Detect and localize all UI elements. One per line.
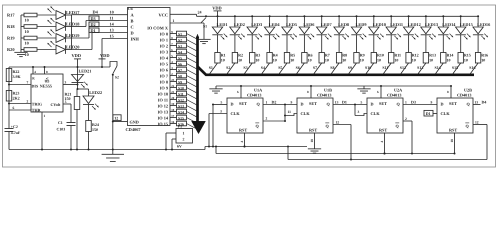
svg-text:11: 11 [288, 110, 292, 114]
svg-text:SET: SET [309, 101, 317, 106]
bus arrowhead [192, 121, 206, 133]
wire U1A D pin 5 [212, 100, 227, 105]
node [88, 149, 90, 151]
node S7 [313, 65, 317, 70]
wire U2A CLK pin 3 [355, 110, 367, 115]
resistor R8 [336, 53, 347, 64]
bus vertical [196, 34, 199, 122]
resistor R7 [319, 53, 330, 64]
svg-text:D: D [301, 102, 304, 107]
wire [212, 105, 214, 148]
flip-flop U1B CD4013 [297, 88, 333, 133]
svg-text:3.9K: 3.9K [13, 74, 22, 79]
pin IO 15 [158, 120, 177, 127]
svg-text:TRIG: TRIG [32, 102, 42, 107]
wire [303, 35, 305, 53]
wire [187, 82, 197, 87]
svg-text:IO 6: IO 6 [160, 68, 169, 73]
pin IO 10 [158, 90, 177, 97]
svg-text:IO 1: IO 1 [160, 38, 168, 43]
LED7 [317, 22, 333, 39]
pin IO 1 [160, 36, 177, 43]
wire [187, 124, 197, 129]
LED19 [48, 30, 81, 43]
wire U1B Q pin 13 net D1 [333, 99, 367, 105]
svg-text:LED19: LED19 [66, 33, 80, 38]
svg-text:IO 4: IO 4 [160, 56, 169, 61]
wire [187, 70, 197, 75]
svg-text:VCC: VCC [158, 12, 168, 17]
wire [187, 100, 197, 105]
node S7 [177, 67, 187, 72]
wire [296, 63, 304, 74]
pin GND [130, 119, 139, 124]
wire [269, 16, 271, 27]
wire [279, 63, 287, 74]
wire [477, 16, 479, 27]
wire led cathode rail [71, 15, 73, 50]
node [425, 15, 427, 17]
svg-text:S7: S7 [313, 65, 317, 70]
svg-text:LED6: LED6 [303, 22, 315, 27]
wire [314, 63, 322, 74]
timer U3 NE555 [31, 74, 63, 112]
node left rail [20, 15, 22, 50]
wire [373, 35, 375, 53]
svg-text:INH: INH [131, 37, 140, 42]
svg-text:15: 15 [110, 34, 114, 39]
svg-text:2: 2 [266, 117, 268, 121]
svg-text:P1: P1 [178, 125, 182, 129]
wire [187, 106, 197, 111]
svg-text:1: 1 [266, 100, 268, 104]
LED5 [282, 22, 297, 39]
svg-text:R20: R20 [7, 47, 15, 52]
svg-text:LED14: LED14 [442, 22, 456, 27]
wire [77, 88, 89, 90]
resistor R20 [7, 47, 37, 57]
node S10 [365, 65, 371, 70]
svg-text:150: 150 [92, 127, 98, 132]
svg-text:10: 10 [221, 57, 225, 62]
wire [373, 16, 375, 27]
svg-text:10: 10 [25, 52, 29, 57]
label D1 [89, 28, 114, 33]
node S13 [177, 103, 187, 108]
svg-text:IO 2: IO 2 [160, 44, 168, 49]
svg-text:5: 5 [361, 100, 363, 104]
wire feedback bottom [288, 159, 487, 161]
power VDD [212, 5, 222, 16]
pin IO 2 [160, 42, 177, 49]
wire [453, 63, 461, 74]
svg-text:22: 22 [171, 84, 175, 88]
svg-text:S4: S4 [261, 65, 265, 70]
LED22 [83, 89, 102, 110]
resistor R9 [354, 53, 365, 64]
ground [197, 37, 210, 44]
wire line B [216, 153, 455, 155]
node [321, 15, 323, 17]
bus elbow [198, 67, 475, 75]
node [477, 15, 479, 17]
svg-text:3: 3 [65, 81, 67, 85]
svg-text:S11: S11 [178, 92, 184, 96]
wire [477, 35, 479, 53]
svg-text:D2: D2 [91, 22, 96, 27]
LED8 [334, 22, 349, 39]
svg-text:D3: D3 [411, 99, 416, 104]
wire [366, 63, 374, 74]
resistor R23 [6, 91, 19, 102]
node S12 [177, 97, 187, 102]
label D4 [93, 10, 114, 15]
node [77, 66, 104, 68]
node S4 [177, 49, 187, 54]
resistor R14 [441, 53, 454, 64]
resistor R16 [475, 53, 488, 64]
border frame [3, 5, 496, 167]
wire SET pin 8 [307, 85, 312, 98]
svg-text:IO 15: IO 15 [158, 122, 168, 127]
svg-text:2: 2 [183, 138, 185, 142]
LED11 [386, 22, 403, 39]
power VDD [72, 53, 82, 89]
node S13 [417, 65, 423, 70]
wire CVolt pin 5 [63, 100, 71, 104]
node S9 [177, 79, 187, 84]
svg-text:SET: SET [239, 101, 247, 106]
svg-text:S2: S2 [226, 65, 230, 70]
wire [187, 76, 197, 81]
wire ground rail [9, 147, 205, 150]
pin IO 12 [158, 102, 177, 109]
svg-text:16: 16 [171, 120, 175, 124]
wire [187, 118, 197, 123]
svg-text:6V: 6V [177, 144, 182, 148]
resistor R18 [7, 24, 37, 34]
pin INH [131, 37, 140, 42]
svg-text:19: 19 [171, 102, 175, 106]
flip-flop U1A CD4013 [227, 88, 263, 133]
svg-text:1: 1 [183, 132, 185, 136]
wire line A [205, 146, 307, 148]
resistor R24 [86, 105, 99, 150]
wire GND pin 1 [42, 112, 46, 150]
flip-flop U2B CD4013 [437, 88, 473, 133]
svg-text:S1: S1 [178, 32, 182, 36]
wire [234, 16, 236, 27]
svg-text:2K2: 2K2 [13, 96, 20, 101]
node [41, 149, 43, 151]
svg-text:R19: R19 [7, 35, 15, 40]
wire SET pin 6 [237, 85, 242, 98]
resistor R3 [250, 53, 261, 64]
svg-text:13: 13 [475, 100, 479, 104]
svg-text:150: 150 [65, 96, 71, 101]
wire [442, 16, 444, 27]
svg-text:S7: S7 [178, 68, 182, 72]
wire [354, 105, 356, 116]
svg-text:11: 11 [110, 16, 114, 21]
wire [208, 114, 210, 148]
wire [187, 64, 197, 69]
svg-text:LED17: LED17 [66, 10, 80, 15]
wire [338, 16, 340, 27]
svg-text:LED2: LED2 [234, 22, 245, 27]
svg-text:IO 13: IO 13 [158, 110, 168, 115]
wire SET pin 6 [377, 85, 382, 98]
wire [217, 16, 219, 27]
node S12 [400, 65, 406, 70]
LED6 [299, 22, 315, 39]
wire U2A Q pin 1 net D3 [403, 99, 437, 104]
svg-text:RST: RST [449, 127, 457, 132]
wire [70, 126, 72, 150]
wire [112, 75, 114, 150]
svg-text:IO 8: IO 8 [160, 80, 168, 85]
svg-text:IO 7: IO 7 [160, 74, 169, 79]
svg-text:D1: D1 [91, 28, 96, 33]
svg-text:S3: S3 [178, 44, 182, 48]
pin IO 7 [160, 72, 177, 79]
wire [70, 104, 72, 123]
wire [460, 16, 462, 27]
resistor R10 [371, 53, 384, 64]
wire [187, 88, 197, 93]
svg-text:VDD: VDD [72, 53, 82, 58]
svg-text:10: 10 [290, 57, 294, 62]
pin D [131, 31, 134, 36]
mux U4 CD4067 [126, 6, 171, 132]
svg-text:LED11: LED11 [390, 22, 403, 27]
svg-text:20: 20 [171, 96, 175, 100]
resistor R12 [406, 53, 419, 64]
LED20 [48, 41, 81, 54]
wire SET pin 8 [447, 85, 452, 98]
svg-text:THR: THR [32, 107, 41, 112]
wire [251, 16, 253, 27]
LED14 [438, 22, 456, 39]
wire [390, 35, 392, 53]
resistor R1 [215, 53, 226, 64]
node S11 [382, 65, 388, 70]
wire VCC pin 24 [170, 9, 202, 16]
svg-text:LED21: LED21 [79, 69, 92, 74]
connector P1 [176, 125, 193, 149]
wire THR pin 6 [9, 106, 31, 110]
wire [203, 23, 205, 37]
svg-text:D2: D2 [272, 99, 277, 104]
svg-text:D: D [231, 102, 234, 107]
svg-text:10: 10 [238, 57, 242, 62]
LED2 [230, 22, 245, 39]
wire RST pin 10 [450, 133, 455, 155]
node [356, 15, 358, 17]
svg-text:Vcc: Vcc [45, 77, 49, 83]
wire feedback right [486, 125, 488, 160]
resistor R11 [389, 53, 402, 64]
node S14 [177, 109, 187, 114]
svg-text:S15: S15 [178, 116, 184, 120]
svg-text:LED15: LED15 [460, 22, 473, 27]
wire [303, 16, 305, 27]
wire [286, 16, 288, 27]
node S16 [469, 65, 475, 70]
ground [14, 50, 27, 57]
svg-text:13: 13 [110, 28, 114, 33]
svg-text:C103: C103 [57, 127, 66, 131]
node [234, 15, 236, 17]
pin IO 4 [160, 54, 177, 61]
wire U1A CLK pin 3 [209, 109, 227, 113]
LED21 [72, 69, 92, 88]
resistor R19 [7, 35, 37, 45]
svg-text:D4: D4 [93, 10, 99, 15]
node [112, 149, 114, 151]
node [286, 15, 288, 17]
svg-text:10: 10 [412, 57, 416, 62]
node S5 [278, 65, 282, 70]
svg-text:S13: S13 [178, 104, 184, 108]
svg-text:S8: S8 [330, 65, 334, 70]
svg-text:S2: S2 [178, 38, 182, 42]
svg-text:5: 5 [221, 100, 223, 104]
wire [425, 16, 427, 27]
wire net D3 [72, 21, 128, 27]
svg-text:4: 4 [380, 141, 384, 143]
svg-text:S10: S10 [178, 86, 184, 90]
svg-text:LED8: LED8 [338, 22, 349, 27]
label 12 [113, 115, 121, 121]
wire [331, 63, 339, 74]
pin VCC [158, 12, 168, 17]
svg-text:10: 10 [429, 57, 433, 62]
wire [442, 35, 444, 53]
svg-text:D1: D1 [342, 99, 347, 104]
svg-text:24: 24 [198, 9, 202, 14]
wire [411, 121, 413, 155]
wire [425, 35, 427, 53]
node [408, 15, 410, 17]
power VDD [99, 53, 110, 59]
svg-text:+C2: +C2 [11, 125, 18, 129]
svg-text:C1: C1 [58, 121, 63, 125]
LED17 [48, 7, 81, 20]
wire U2B Q pin 13 net D4 [473, 99, 486, 104]
svg-text:10: 10 [25, 40, 29, 45]
wire [284, 105, 286, 122]
svg-text:10: 10 [25, 29, 29, 34]
pin A [131, 13, 135, 18]
svg-text:IO 14: IO 14 [158, 116, 169, 121]
node S15 [452, 65, 458, 70]
LED9 [351, 22, 366, 39]
svg-text:17: 17 [171, 114, 175, 118]
svg-text:IO 12: IO 12 [158, 104, 168, 109]
node S16 [177, 121, 187, 126]
svg-text:3: 3 [220, 109, 222, 113]
ground [357, 86, 370, 93]
wire [269, 35, 271, 53]
pin IO 9 [160, 84, 177, 91]
svg-text:S2: S2 [115, 76, 119, 80]
svg-text:21: 21 [171, 90, 175, 94]
LED12 [403, 22, 420, 39]
svg-text:1: 1 [44, 114, 46, 118]
wire [251, 35, 253, 53]
node S1 [209, 65, 213, 70]
wire U2B CLK [433, 113, 437, 115]
svg-text:10: 10 [25, 17, 29, 22]
wire [37, 14, 56, 16]
wire [227, 63, 235, 74]
wire [435, 63, 443, 74]
wire [262, 63, 270, 74]
wire pin 4 [32, 66, 36, 74]
svg-text:10: 10 [273, 57, 277, 62]
svg-text:C: C [131, 25, 134, 30]
LED4 [264, 22, 280, 39]
wire U1A Q pin 1 net D2 [263, 99, 297, 105]
svg-text:1: 1 [405, 100, 407, 104]
LED10 [369, 22, 386, 39]
pin B [131, 19, 134, 24]
svg-text:SET: SET [449, 101, 457, 106]
node [251, 15, 253, 17]
LED1 [212, 22, 227, 39]
svg-text:10: 10 [377, 57, 381, 62]
node S15 [177, 115, 187, 120]
svg-text:IO 5: IO 5 [160, 62, 168, 67]
node S5 [177, 55, 187, 60]
capacitor C2 [5, 125, 21, 135]
svg-text:VDD: VDD [100, 53, 110, 58]
svg-text:LED7: LED7 [321, 22, 333, 27]
node S10 [177, 85, 187, 90]
svg-text:CLK: CLK [301, 111, 311, 116]
svg-text:S3: S3 [243, 65, 247, 70]
resistor R22 [6, 69, 21, 82]
svg-text:LED4: LED4 [269, 22, 281, 27]
wire DIS pin 7 [9, 81, 31, 85]
pin IO 3 [160, 48, 177, 55]
wire [215, 146, 217, 154]
wire U1B Qbar pin 12 [333, 120, 351, 124]
capacitor C1 [57, 121, 76, 131]
svg-text:10: 10 [360, 57, 364, 62]
svg-text:12: 12 [475, 120, 479, 124]
svg-text:SET: SET [379, 101, 387, 106]
wire [460, 35, 462, 53]
svg-text:CD4013: CD4013 [457, 92, 471, 97]
LED3 [247, 22, 262, 39]
wire [210, 63, 218, 74]
LED15 [456, 22, 473, 39]
svg-text:S6: S6 [296, 65, 300, 70]
node S9 [348, 65, 352, 70]
wire [286, 35, 288, 53]
svg-text:IO 10: IO 10 [158, 92, 168, 97]
wire [217, 35, 219, 53]
wire [349, 63, 357, 74]
wire [37, 49, 56, 51]
svg-text:6: 6 [13, 106, 15, 110]
wire [418, 63, 426, 74]
svg-text:LED5: LED5 [286, 22, 297, 27]
wire [350, 125, 352, 161]
svg-text:S4: S4 [178, 50, 182, 54]
